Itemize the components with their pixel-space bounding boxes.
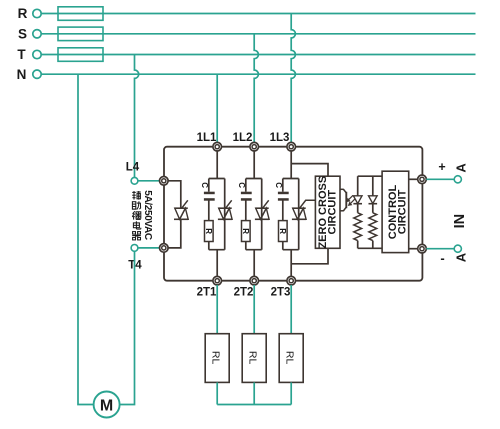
wire input bottom rail <box>358 247 382 249</box>
terminal R <box>33 9 41 17</box>
svg-text:CIRCUIT: CIRCUIT <box>397 189 409 234</box>
svg-text:-: - <box>440 251 444 266</box>
svg-text:R: R <box>18 6 28 21</box>
svg-text:1L3: 1L3 <box>270 132 290 144</box>
resistor R2 <box>241 221 250 242</box>
svg-text:A: A <box>453 163 468 173</box>
wire triac 1 branch <box>224 179 226 250</box>
svg-text:RL: RL <box>246 351 258 365</box>
wire RL3 to star <box>290 382 292 404</box>
terminal minus <box>418 244 427 253</box>
terminal T4 module side <box>160 244 169 253</box>
load RL1 <box>205 334 229 383</box>
wire 1L3 tap to zero cross <box>291 164 328 177</box>
wire T4 stub <box>138 247 159 249</box>
wire S to 1L2 <box>254 34 258 143</box>
svg-text:RL: RL <box>209 351 221 365</box>
terminal 2T1 <box>213 276 222 285</box>
terminal L4 module side <box>160 177 169 186</box>
svg-text:M: M <box>100 397 113 414</box>
wire triac 2 branch <box>261 179 263 250</box>
terminal 1L1 <box>213 142 222 151</box>
terminal 1L2 <box>250 142 259 151</box>
wire R1 lower <box>208 242 210 250</box>
wire star bar <box>217 404 291 406</box>
svg-text:5A/250VAC: 5A/250VAC <box>142 190 153 240</box>
terminal A plus <box>454 176 461 183</box>
svg-text:C: C <box>200 182 209 188</box>
node module 2 top bar <box>246 178 262 180</box>
label CJK auxiliary relay <box>132 191 141 240</box>
node module 3 bottom bar <box>283 249 299 251</box>
wire diode branch upper <box>372 176 374 196</box>
load RL3 <box>279 334 303 383</box>
resistor R1 <box>204 221 213 242</box>
wire N to 1L1 <box>216 74 218 143</box>
triac Q1 <box>218 200 232 219</box>
wire C3 to R3 <box>282 200 284 220</box>
svg-text:A: A <box>453 252 468 262</box>
triac Q4 auxiliary <box>174 200 188 219</box>
svg-text:N: N <box>17 67 27 82</box>
terminal S <box>33 30 41 38</box>
svg-text:IN: IN <box>452 214 468 229</box>
wire L4 stub <box>138 180 159 182</box>
svg-text:2T3: 2T3 <box>271 287 291 299</box>
wire control to plus <box>409 178 419 180</box>
terminal 2T3 <box>287 276 296 285</box>
wire minus input <box>426 248 454 250</box>
terminal T <box>33 50 41 58</box>
fuse F2 <box>58 27 103 40</box>
svg-text:R: R <box>241 228 250 234</box>
wire N to motor <box>78 74 94 404</box>
SSR module outline <box>164 147 422 281</box>
wire aux branch <box>168 181 181 248</box>
wire C2 to R2 <box>245 200 247 220</box>
node module 1 top bar <box>209 178 225 180</box>
capacitor C1 <box>204 192 215 201</box>
resistor R5 <box>369 213 377 241</box>
wire snubber 3 upper <box>282 179 284 192</box>
wire snubber 2 upper <box>245 179 247 192</box>
wire D2 to R5 <box>372 204 374 213</box>
wire zero cross bottom return <box>291 248 328 263</box>
triac Q3 <box>292 200 316 219</box>
wire LED branch upper <box>357 176 359 196</box>
wire R3 lower <box>282 242 284 250</box>
block control circuit U3 <box>382 171 409 252</box>
wire RL2 to star <box>253 382 255 404</box>
wire C1 to R1 <box>208 200 210 220</box>
svg-text:C: C <box>237 182 246 188</box>
capacitor C2 <box>241 192 252 201</box>
svg-text:L4: L4 <box>126 161 140 173</box>
resistor R4 <box>354 213 362 241</box>
terminal N <box>33 70 41 78</box>
diode D2 <box>369 196 378 204</box>
wire R5 lower <box>372 241 374 249</box>
triac Q2 <box>255 200 269 219</box>
wire plus input <box>426 178 454 180</box>
wire R to 1L3 <box>291 14 295 144</box>
opto light arrows <box>347 195 355 205</box>
fuse F3 <box>58 48 103 62</box>
resistor R3 <box>278 221 287 242</box>
svg-text:1L2: 1L2 <box>233 132 253 144</box>
svg-text:RL: RL <box>283 351 295 365</box>
wire T to L4 <box>135 55 139 178</box>
terminal plus <box>418 175 427 184</box>
capacitor C3 <box>278 192 289 201</box>
wire 1L2 drop <box>253 151 255 179</box>
wire T4 to motor <box>120 251 135 404</box>
node module 1 bottom bar <box>209 249 225 251</box>
node module 2 bottom bar <box>246 249 262 251</box>
motor M <box>94 392 120 418</box>
wire triac 3 branch <box>298 179 300 250</box>
svg-text:CIRCUIT: CIRCUIT <box>327 190 339 235</box>
terminal A minus <box>454 245 461 252</box>
svg-text:2T2: 2T2 <box>234 287 254 299</box>
svg-text:T: T <box>17 47 26 62</box>
wire snubber 1 upper <box>208 179 210 192</box>
wire module 3 to 2T3 <box>290 250 292 277</box>
svg-text:1L1: 1L1 <box>197 132 217 144</box>
node module 3 top bar <box>283 178 299 180</box>
wire module 2 to 2T2 <box>253 250 255 277</box>
terminal 2T2 <box>250 276 259 285</box>
wire R4 lower <box>357 241 359 249</box>
wire control to minus <box>409 248 419 250</box>
svg-text:2T1: 2T1 <box>197 287 217 299</box>
wire T rail <box>41 54 475 56</box>
wire R rail <box>41 13 475 15</box>
svg-text:+: + <box>438 160 445 174</box>
opto phototransistor U2 <box>340 189 346 211</box>
terminal L4 <box>131 177 138 184</box>
wire 1L3 drop <box>290 151 292 179</box>
terminal T4 <box>131 245 138 252</box>
wire 1L1 drop <box>216 151 218 179</box>
wire LED to R4 <box>357 204 359 213</box>
load RL2 <box>242 334 266 383</box>
svg-text:C: C <box>274 182 283 188</box>
wire 2T2 to RL2 <box>253 285 255 334</box>
wire 2T1 to RL1 <box>216 285 218 334</box>
svg-text:S: S <box>18 27 27 42</box>
LED D1 <box>353 196 362 204</box>
svg-text:R: R <box>204 228 213 234</box>
wire 2T3 to RL3 <box>290 285 292 334</box>
wire S rail <box>41 33 475 35</box>
wire N rail <box>41 73 475 75</box>
terminal 1L3 <box>287 142 296 151</box>
wire module 1 to 2T1 <box>216 250 218 277</box>
fuse F1 <box>58 7 103 20</box>
wire R2 lower <box>245 242 247 250</box>
block zero cross circuit U1 <box>315 176 340 249</box>
wire RL1 to star <box>216 382 218 404</box>
svg-text:R: R <box>278 228 287 234</box>
wire input top rail <box>358 175 382 177</box>
